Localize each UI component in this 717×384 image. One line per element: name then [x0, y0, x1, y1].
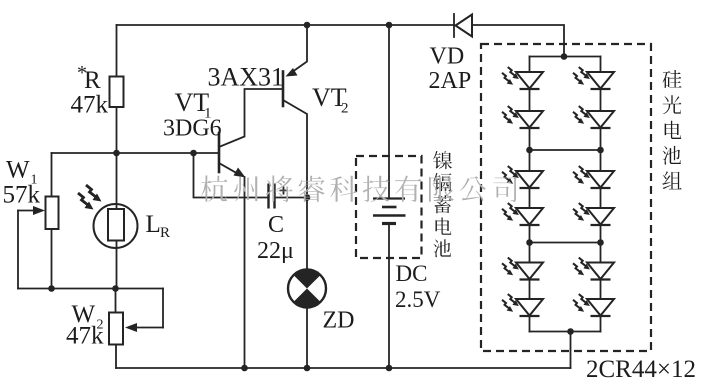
svg-text:57k: 57k: [3, 182, 41, 209]
wire: solar column 1: [529, 57, 531, 73]
svg-text:2.5V: 2.5V: [395, 287, 441, 312]
potentiometer W1 57k: [18, 153, 59, 289]
photocell D8: [573, 106, 614, 128]
svg-text:47k: 47k: [71, 92, 109, 119]
photocell D5: [502, 258, 543, 280]
wire: solar output to bottom rail: [570, 332, 572, 369]
photocell D1: [502, 67, 543, 89]
photocell D9: [573, 166, 614, 188]
photocell D11: [573, 258, 614, 280]
svg-text:22μ: 22μ: [257, 238, 294, 264]
node: battery at top rail: [386, 22, 393, 29]
wire: LR bottom lead: [116, 241, 118, 289]
wire: solar column 2: [600, 316, 602, 332]
wire: solar column 1: [529, 280, 531, 300]
watermark hangzhou jiangrui keji youxian gongsi: [201, 175, 516, 202]
wire: top rail right of diode to solar box: [472, 25, 564, 57]
wire: ZD to bottom rail: [306, 308, 308, 369]
wire: solar column 1: [529, 316, 531, 332]
node: battery at bottom rail: [386, 365, 393, 372]
node: R / LR junction: [113, 150, 120, 157]
node: W1 bottom: [48, 285, 55, 292]
node: solar feed junction: [561, 53, 568, 60]
wire: VT1 emitter to bottom rail: [244, 177, 246, 368]
svg-text:47k: 47k: [66, 323, 104, 350]
photocell D12: [573, 294, 614, 316]
node: tie1 left: [526, 147, 533, 154]
node: tie2 left: [526, 239, 533, 246]
battery dashed enclosure: [356, 156, 422, 258]
wire: R bottom to base node line: [116, 107, 118, 153]
wire: solar column 1: [529, 128, 531, 171]
lamp ZD: [288, 270, 326, 308]
wire: solar cross tie 2: [530, 242, 601, 244]
svg-text:W: W: [6, 157, 30, 184]
wire: solar column 2: [600, 128, 602, 171]
node: VT2 emitter on top rail: [304, 22, 311, 29]
wire: solar column 1: [529, 225, 531, 263]
node: ZD at bottom rail: [304, 365, 311, 372]
wire: solar cross tie 1: [530, 149, 601, 151]
photocell D2: [502, 106, 543, 128]
svg-text:3DG6: 3DG6: [163, 116, 222, 142]
node: VT1 emitter at bottom rail: [241, 365, 248, 372]
wire: solar column 2: [600, 225, 602, 263]
solar array dashed enclosure: [481, 44, 651, 351]
wire: solar bottom tie: [530, 331, 601, 333]
photocell D10: [573, 203, 614, 225]
wire: solar column 2: [600, 89, 602, 111]
transistor VT1 3DG6: [219, 89, 283, 178]
svg-text:R: R: [160, 225, 170, 241]
svg-text:L: L: [146, 211, 161, 238]
wire: solar column 2: [600, 280, 602, 300]
wire: lower left node line: [18, 288, 163, 290]
label silicon solar array (vertical): [662, 70, 681, 189]
wire: solar column 2: [600, 57, 602, 73]
node: solar output: [567, 328, 574, 335]
transistor VT2 3AX31: [283, 25, 307, 269]
photoresistor LR: [78, 185, 138, 248]
wire: solar column 1: [529, 89, 531, 111]
wire: base node line: [52, 152, 220, 154]
label NiCd battery (vertical): [433, 151, 452, 257]
wire: LR top lead: [116, 153, 118, 210]
wire: ground/bottom rail: [116, 367, 571, 369]
diode VD 2AP: [454, 14, 472, 37]
photocell D3: [502, 166, 543, 188]
node: C right / VT2 collector: [304, 194, 311, 201]
wire: top supply rail: [117, 24, 455, 26]
svg-text:C: C: [268, 212, 284, 238]
potentiometer W2 47k: [109, 289, 163, 369]
capacitor C 22u: [269, 184, 308, 209]
photocell D4: [502, 203, 543, 225]
svg-text:DC: DC: [396, 261, 428, 286]
wire: feedback from base node to C: [194, 153, 269, 198]
svg-text:ZD: ZD: [323, 308, 355, 334]
photocell D6: [502, 294, 543, 316]
svg-text:3AX31: 3AX31: [208, 63, 285, 92]
battery GB NiCd: [373, 25, 406, 368]
wire: left vertical from top rail to R: [116, 25, 118, 77]
svg-text:VD: VD: [430, 44, 465, 70]
wire: solar top header: [530, 56, 601, 58]
node: tie2 right: [597, 239, 604, 246]
svg-text:2: 2: [341, 101, 349, 117]
wire: solar column 2: [600, 188, 602, 208]
photocell D7: [573, 67, 614, 89]
svg-text:2AP: 2AP: [429, 68, 472, 94]
svg-text:R: R: [84, 67, 101, 94]
node: tie1 right: [597, 147, 604, 154]
wire: solar column 1: [529, 188, 531, 208]
resistor R 47k: [110, 77, 124, 108]
svg-text:2CR44×12: 2CR44×12: [586, 356, 696, 383]
node: feedback junction: [190, 150, 197, 157]
node: LR / W2 junction: [112, 285, 119, 292]
